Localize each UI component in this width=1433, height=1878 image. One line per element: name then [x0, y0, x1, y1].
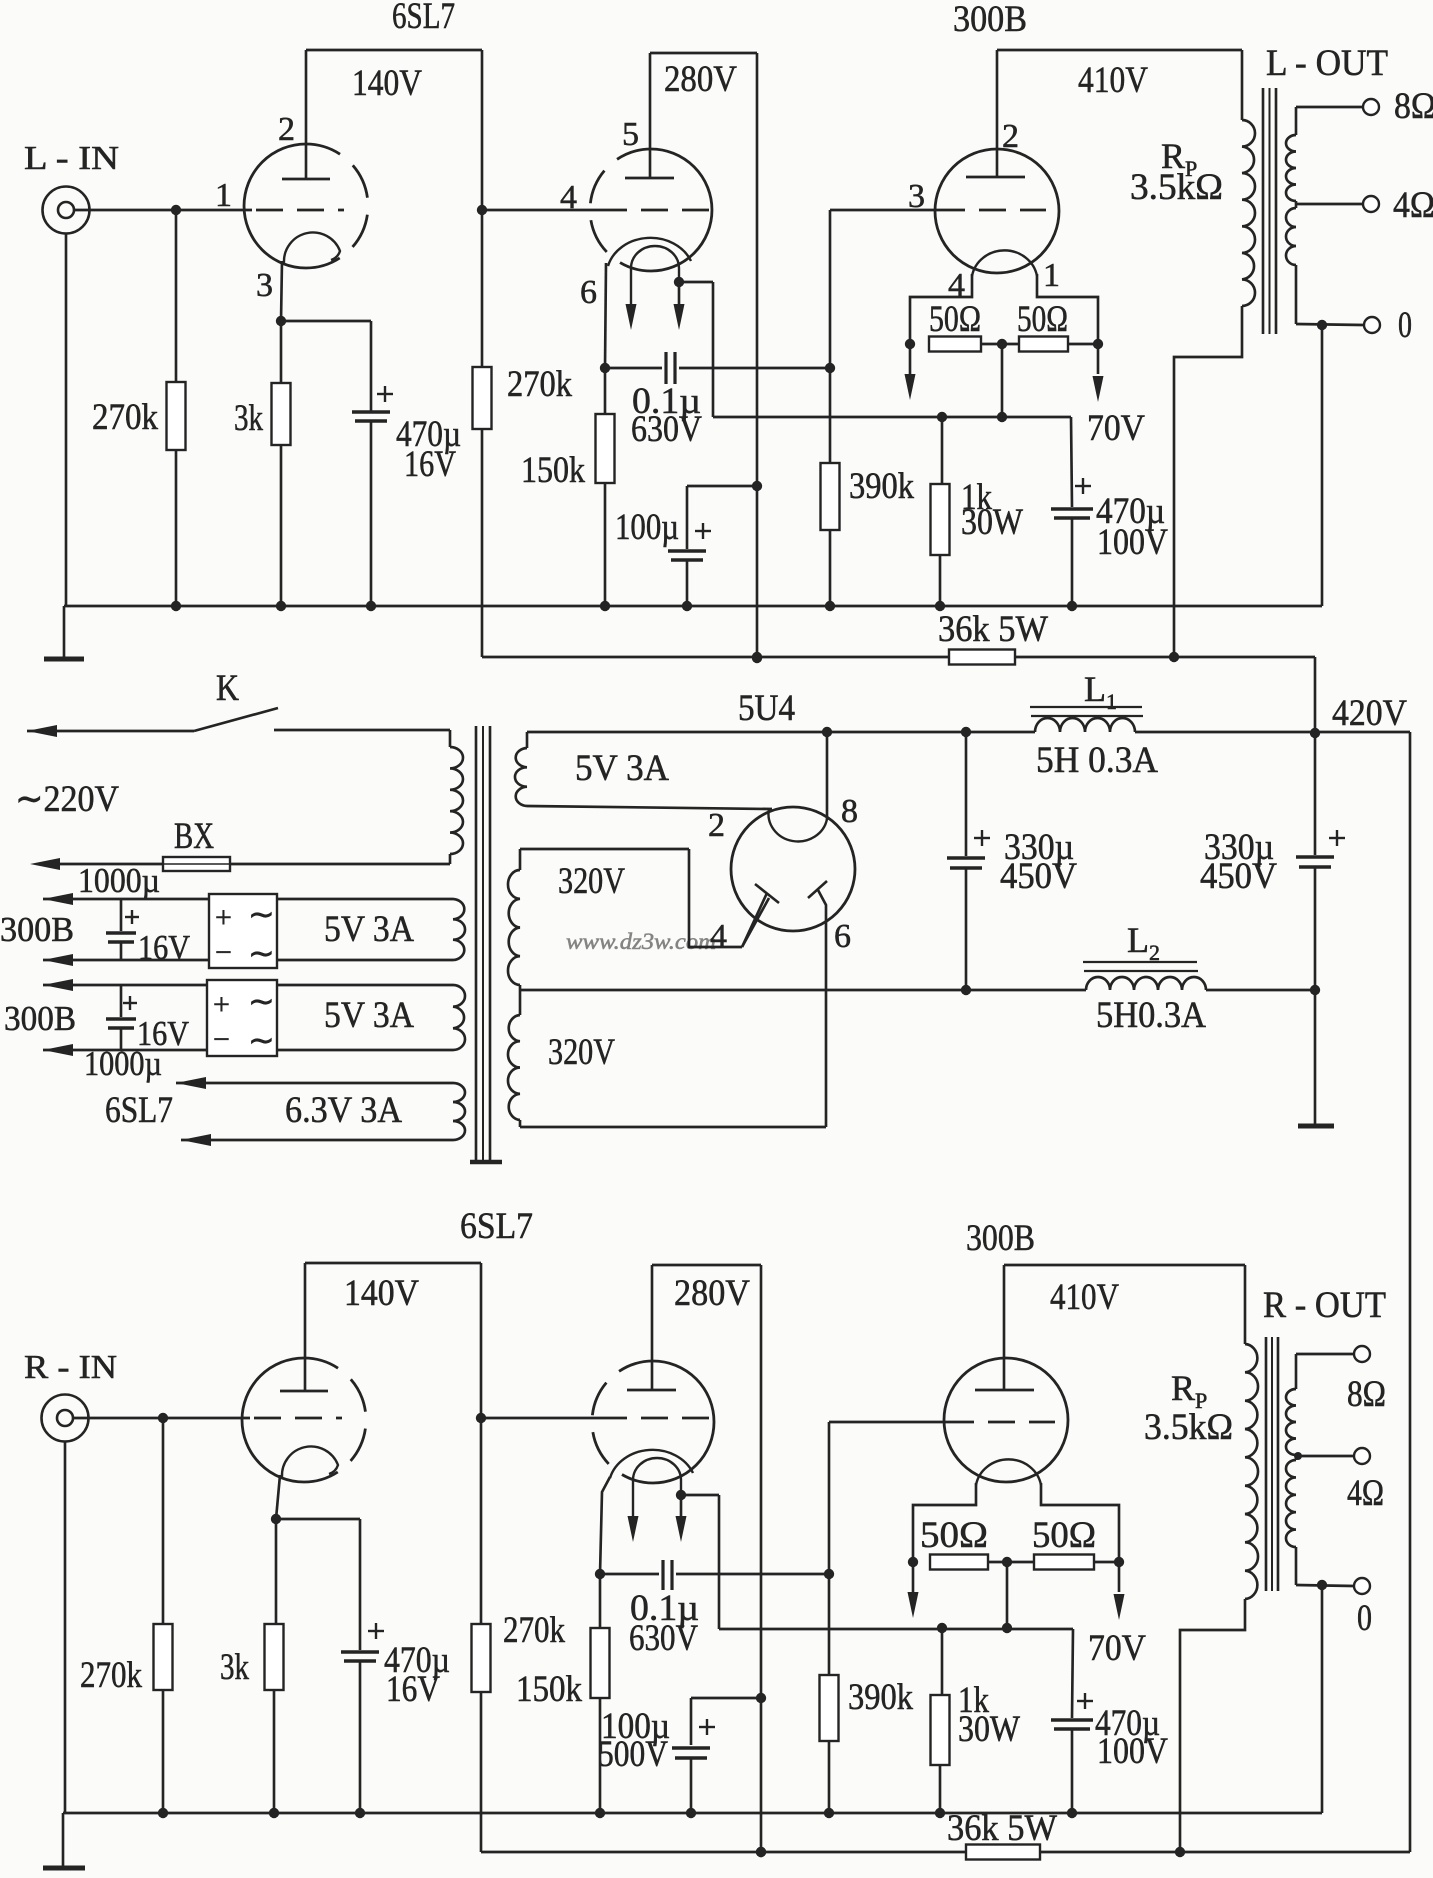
capacitor 470u 100V [1071, 417, 1072, 507]
wire jack ground drop R [64, 1441, 67, 1813]
B+ rail after L1 [1135, 731, 1410, 734]
node 280V to 36k line R [756, 1847, 766, 1857]
terminal 8 ohm R [1296, 1353, 1354, 1356]
svg-text:2: 2 [1002, 118, 1019, 155]
svg-text:320V: 320V [548, 1032, 615, 1073]
filament supply 1 wire + [43, 893, 73, 905]
svg-text:140V: 140V [344, 1273, 419, 1314]
svg-text:0: 0 [1357, 1598, 1372, 1639]
terminal 4 ohm R [1296, 1455, 1354, 1458]
node OPT primary return R [1175, 1847, 1185, 1857]
node hum pot left R [908, 1557, 918, 1567]
node 0.1u right / grid 300B [825, 363, 835, 373]
wire center tap to 70V R [1006, 1562, 1009, 1628]
svg-text:70V: 70V [1088, 1628, 1146, 1669]
power transformer primary winding [449, 730, 452, 747]
transformer winding 6.3V 3A [453, 1083, 465, 1140]
resistor 270k grid leak R [162, 1418, 165, 1624]
svg-text:270k: 270k [92, 397, 158, 438]
wire plate pin 6 of 5U4 return [520, 1126, 826, 1129]
svg-text:300B: 300B [953, 0, 1027, 40]
svg-text:50Ω: 50Ω [1017, 299, 1068, 340]
transformer winding 5V 3A no2 [277, 984, 453, 987]
wire plate pin 4 of 5U4 [689, 849, 742, 947]
svg-text:∼: ∼ [248, 896, 275, 932]
ground symbol bottom left [62, 1813, 65, 1866]
pin 8 of 5U4 [826, 732, 829, 820]
wire filament to 70V node [679, 281, 713, 284]
svg-text:300B: 300B [0, 910, 74, 949]
svg-text:6: 6 [580, 274, 597, 311]
ground symbol top left [63, 606, 66, 657]
svg-text:6: 6 [834, 918, 851, 955]
filament supply 2 wire + [43, 979, 73, 991]
output transformer R primary [1004, 1264, 1245, 1267]
power transformer core ground bar [470, 1160, 502, 1165]
resistor 50 ohm left [929, 337, 981, 352]
svg-text:2: 2 [278, 111, 295, 148]
resistor 50 ohm right R [1034, 1555, 1094, 1570]
resistor 390k R [828, 1574, 831, 1675]
svg-text:www.dz3w.com: www.dz3w.com [566, 929, 716, 954]
svg-text:70V: 70V [1087, 408, 1145, 449]
svg-text:∼: ∼ [248, 983, 275, 1019]
svg-text:8Ω: 8Ω [1347, 1374, 1386, 1415]
triode V2a 6SL7 section 1 [242, 1358, 304, 1482]
power tube 300B right channel [944, 1358, 1068, 1482]
svg-text:1: 1 [215, 177, 232, 214]
node grid V1a [171, 205, 181, 215]
capacitor 100u 500V R [690, 1698, 693, 1745]
rectifier winding 5V 3A top [526, 732, 529, 748]
svg-text:0: 0 [1398, 305, 1412, 346]
terminal 4 ohm [1296, 203, 1363, 206]
resistor 1k 30W R [941, 1628, 944, 1695]
output transformer core R [1265, 1337, 1268, 1591]
input jack R-IN [42, 1395, 89, 1442]
B+ rail 420V [527, 731, 1035, 734]
node OPT primary return [1169, 652, 1179, 662]
fuse BX [163, 857, 230, 871]
resistor 390k grid leak 300B [829, 368, 832, 463]
node 280V drop R [756, 1847, 766, 1857]
svg-text:50Ω: 50Ω [1032, 1515, 1096, 1556]
filament leg pin 4 [910, 274, 972, 344]
svg-text:630V: 630V [629, 1618, 698, 1659]
svg-text:3: 3 [256, 267, 273, 304]
ground power supply [1298, 1124, 1334, 1129]
svg-text:3.5kΩ: 3.5kΩ [1144, 1407, 1233, 1448]
ground bus top channel [64, 605, 1322, 608]
node 1k top R [937, 1623, 947, 1633]
resistor 36k 5W [949, 650, 1015, 665]
node hum pot center R [988, 1561, 1034, 1564]
svg-text:5V 3A: 5V 3A [575, 748, 669, 789]
wire L-IN to grid of V1a [74, 209, 252, 212]
wire cathode V2b down [600, 1477, 610, 1574]
5U4 filament arc [769, 809, 827, 841]
svg-text:300B: 300B [966, 1218, 1035, 1259]
svg-text:3.5kΩ: 3.5kΩ [1130, 167, 1223, 208]
svg-text:300B: 300B [4, 999, 76, 1038]
svg-text:50Ω: 50Ω [920, 1515, 988, 1556]
svg-text:280V: 280V [674, 1273, 750, 1314]
svg-text:K: K [216, 668, 239, 709]
svg-text:L - IN: L - IN [24, 140, 119, 177]
rectifier tube 5U4 [731, 807, 855, 931]
svg-text:150k: 150k [521, 450, 585, 491]
svg-text:30W: 30W [961, 502, 1023, 543]
output transformer L primary [997, 49, 1242, 52]
svg-text:36k 5W: 36k 5W [947, 1808, 1057, 1849]
output transformer L secondary [1295, 107, 1298, 135]
svg-text:270k: 270k [507, 364, 572, 405]
terminal 8 ohm [1296, 106, 1363, 109]
node filament V1b [674, 277, 684, 287]
node 280V to 36k line [752, 653, 762, 663]
capacitor 470u 100V R [1072, 1629, 1073, 1718]
arrow right filament return [1097, 344, 1100, 374]
wire 280V rail rectangle [650, 52, 757, 55]
svg-text:410V: 410V [1078, 60, 1148, 101]
resistor 36k 5W R [966, 1845, 1040, 1860]
svg-text:8: 8 [841, 793, 858, 830]
triode V1b 6SL7 section 2 [651, 149, 712, 271]
node 1k top [937, 412, 947, 422]
wire R-IN to grid [73, 1417, 250, 1420]
wire 0 terminal to ground bus R [1321, 1585, 1324, 1813]
node hum pot right R [1094, 1561, 1119, 1564]
wire 420V down feed [1409, 732, 1412, 1852]
svg-text:16V: 16V [138, 928, 190, 967]
return line to L2 [520, 989, 1086, 992]
capacitor 1000u 16V no1 [120, 899, 123, 931]
resistor 50 ohm right [1019, 337, 1068, 352]
svg-text:5H0.3A: 5H0.3A [1096, 995, 1206, 1036]
node grid V1b [477, 205, 487, 215]
resistor 3k cathode [280, 321, 283, 383]
svg-text:36k 5W: 36k 5W [938, 609, 1048, 650]
svg-text:30W: 30W [958, 1709, 1020, 1750]
terminal 0 R [1296, 1585, 1354, 1586]
node 0.1u left R [595, 1569, 605, 1579]
svg-text:140V: 140V [352, 63, 422, 104]
svg-text:320V: 320V [558, 861, 625, 902]
triode V1a 6SL7 section 1 [244, 144, 306, 268]
resistor 270k plate load V1a [481, 210, 484, 367]
svg-text:280V: 280V [664, 59, 737, 100]
node 420V [1310, 728, 1320, 738]
svg-text:100V: 100V [1097, 522, 1168, 563]
node L2 out [1310, 985, 1320, 995]
svg-text:3: 3 [908, 178, 925, 215]
svg-text:270k: 270k [80, 1655, 142, 1696]
wire grid V2b [481, 1417, 600, 1420]
node grid V2a [158, 1413, 168, 1423]
HV winding 320V lower [519, 990, 522, 1015]
coupling capacitor 0.1u 630V [605, 367, 662, 370]
wire 0 terminal to ground bus [1321, 325, 1324, 606]
svg-text:3k: 3k [220, 1647, 249, 1688]
svg-text:500V: 500V [598, 1734, 668, 1775]
power transformer core [475, 726, 478, 1160]
input jack L-IN [43, 187, 90, 234]
node hum pot center [981, 343, 1019, 346]
svg-text:6SL7: 6SL7 [460, 1206, 533, 1247]
wire grid 300B R [828, 1422, 831, 1574]
svg-text:R - OUT: R - OUT [1263, 1285, 1386, 1326]
filament leg left R [913, 1483, 976, 1562]
resistor 270k plate load R [480, 1418, 483, 1624]
resistor 150k R [599, 1574, 602, 1628]
svg-text:100V: 100V [1097, 1731, 1168, 1772]
svg-text:4Ω: 4Ω [1347, 1473, 1384, 1514]
output transformer R secondary [1295, 1354, 1298, 1389]
wire 36k line to 420V rail [1314, 657, 1317, 733]
svg-text:390k: 390k [849, 466, 914, 507]
svg-text:5: 5 [622, 116, 639, 153]
svg-text:−: − [215, 936, 232, 969]
capacitor 100u decoupling [686, 486, 689, 549]
svg-text:1000µ: 1000µ [78, 861, 160, 900]
svg-text:5H 0.3A: 5H 0.3A [1036, 740, 1158, 781]
wire grid 300B [829, 210, 832, 368]
svg-text:2: 2 [708, 807, 725, 844]
wire 70V node line [713, 416, 1071, 419]
arrow right filament return R [1118, 1562, 1121, 1592]
svg-text:450V: 450V [1000, 856, 1077, 897]
svg-text:5V 3A: 5V 3A [324, 995, 414, 1036]
svg-text:270k: 270k [503, 1610, 565, 1651]
wire jack ground drop [65, 233, 68, 606]
filament supply 1 wire - [43, 954, 73, 966]
filament leg pin 1 [1037, 274, 1098, 344]
5U4 anode left [755, 884, 779, 903]
wire grid V1b [482, 209, 600, 212]
5U4 anode right [808, 881, 827, 898]
bridge rectifier 1 [209, 894, 277, 968]
svg-text:∼220V: ∼220V [15, 779, 119, 820]
capacitor 470u 16V cathode bypass [377, 393, 393, 395]
svg-text:L - OUT: L - OUT [1266, 43, 1388, 84]
node filament V2b [676, 1490, 686, 1500]
svg-text:4Ω: 4Ω [1393, 185, 1433, 226]
svg-text:6SL7: 6SL7 [105, 1090, 173, 1131]
svg-text:∼: ∼ [248, 1022, 275, 1058]
heater supply 6.3V wires [176, 1077, 206, 1089]
terminal 0 [1296, 324, 1363, 325]
svg-text:390k: 390k [848, 1677, 913, 1718]
36k feed line 280V [482, 656, 949, 659]
svg-text:1: 1 [1043, 257, 1060, 294]
node hum pot left [905, 339, 915, 349]
filament 300B (arc) [972, 250, 1037, 276]
filter capacitor 330u 450V no1 [965, 732, 968, 856]
resistor 150k [604, 368, 607, 414]
svg-text:6SL7: 6SL7 [392, 0, 455, 37]
bridge rectifier 2 [207, 980, 277, 1056]
node grid V2b [476, 1413, 486, 1423]
cathode arc V1b [608, 238, 691, 266]
ground bus bottom channel [63, 1812, 1322, 1815]
svg-text:16V: 16V [386, 1669, 440, 1710]
node 280V drop [752, 652, 762, 662]
svg-text:50Ω: 50Ω [929, 299, 981, 340]
wire 140V rail R [305, 1262, 481, 1265]
resistor 50 ohm left R [930, 1555, 988, 1570]
svg-text:1000µ: 1000µ [84, 1044, 162, 1083]
resistor 3k cathode R [275, 1519, 278, 1624]
resistor 270k grid leak V1a [175, 210, 178, 382]
wire cathode to bypass cap [281, 320, 371, 323]
node cathode V2a [271, 1514, 281, 1524]
power tube 300B left channel [935, 149, 1059, 273]
capacitor 470u 16V R [368, 1630, 384, 1632]
arrow left filament return R [912, 1562, 915, 1592]
output transformer core L [1262, 88, 1265, 334]
svg-text:R - IN: R - IN [24, 1349, 117, 1386]
triode V2b 6SL7 section 2 [653, 1361, 714, 1483]
svg-text:8Ω: 8Ω [1394, 86, 1433, 127]
svg-text:16V: 16V [404, 444, 456, 485]
wire cathode V1b down [605, 263, 606, 368]
node 0.1u right R [824, 1569, 834, 1579]
node cathode V1a [276, 316, 286, 326]
svg-text:100µ: 100µ [615, 507, 679, 548]
wire 140V rail [306, 49, 482, 52]
filament supply 2 wire - [43, 1044, 73, 1056]
node pin8 rail [822, 727, 832, 737]
svg-text:+: + [215, 901, 232, 934]
wire 280V rail rectangle R [652, 1264, 761, 1267]
node hum pot right [1068, 343, 1098, 346]
filament hook V2b with arrows [633, 1458, 681, 1520]
filament 300B R (arc) [976, 1459, 1041, 1485]
filter capacitor 330u 450V no2 [1314, 733, 1317, 855]
wire center tap to 70V [1001, 344, 1004, 417]
HV winding 320V upper [520, 848, 689, 851]
svg-text:−: − [213, 1023, 230, 1056]
svg-text:5U4: 5U4 [738, 688, 795, 729]
svg-text:630V: 630V [631, 409, 702, 450]
svg-text:450V: 450V [1200, 856, 1277, 897]
svg-text:3k: 3k [234, 398, 263, 439]
svg-text:5V 3A: 5V 3A [324, 909, 414, 950]
36k feed line 280V R [481, 1851, 966, 1854]
resistor 1k 30W cathode 300B [941, 417, 944, 484]
cathode arc V2b [610, 1450, 693, 1478]
svg-text:∼: ∼ [248, 935, 275, 971]
svg-text:+: + [213, 988, 230, 1021]
node filter cap 1 top [961, 727, 971, 737]
node 100u to 280V rail [752, 481, 762, 491]
coupling capacitor 0.1u 630V R [600, 1573, 659, 1576]
wire 70V node line R [719, 1628, 1073, 1631]
svg-text:6.3V 3A: 6.3V 3A [285, 1090, 402, 1131]
svg-text:4: 4 [560, 179, 577, 216]
wire filament to 70V node R [681, 1494, 719, 1497]
svg-text:420V: 420V [1332, 693, 1407, 734]
node 0.1u left [600, 363, 610, 373]
svg-text:150k: 150k [516, 1669, 582, 1710]
svg-text:410V: 410V [1050, 1277, 1119, 1318]
arrow left filament return [909, 344, 912, 374]
capacitor 1000u 16V no2 [120, 985, 123, 1017]
filament leg right R [1041, 1483, 1119, 1562]
svg-text:BX: BX [174, 816, 214, 857]
filament hook V1b with arrows [631, 246, 679, 308]
transformer winding 5V 3A no1 [277, 898, 453, 901]
wire cathode to bypass cap R [276, 1518, 360, 1521]
